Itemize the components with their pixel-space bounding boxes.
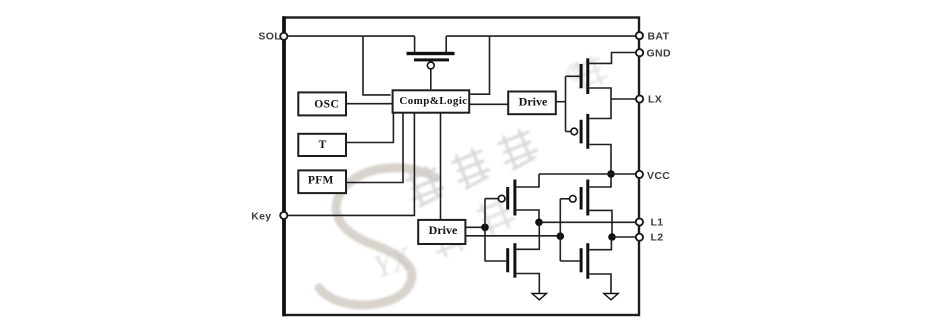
wire: M2 bubble link (566, 131, 571, 133)
pin circle SOL (280, 33, 287, 40)
watermark glyph hatch 1 (495, 126, 541, 172)
junction dot Drive2 upper (481, 224, 489, 232)
junction dot L1 (535, 219, 543, 227)
junction dot L2 (608, 233, 616, 241)
block PFM (298, 170, 346, 193)
pin circle GND (636, 49, 643, 56)
block OSC (298, 92, 346, 115)
transistor M5 gate bubble (498, 195, 505, 202)
transistor M2 gate bubble (571, 128, 578, 135)
wire: M4 source to ground (589, 274, 611, 294)
wire: Comp&Logic to Drive2 (440, 114, 442, 220)
transistor M2 gate bar (580, 120, 583, 144)
svg-text:Drive: Drive (519, 94, 548, 108)
block Drive2 (418, 220, 465, 244)
wire: BAT line (right segment) (446, 35, 639, 37)
block Drive1 (508, 92, 556, 115)
wire: M5 source to VCC (516, 174, 539, 187)
pin circle BAT (636, 32, 643, 39)
junction dot Drive2 lower (557, 232, 565, 240)
transistor M0 gate bubble (427, 62, 434, 69)
wire: VCC line (539, 173, 639, 175)
transistor M1 gate bar (580, 64, 583, 88)
wire: L1 line (539, 221, 639, 223)
junction dot VCC (607, 170, 615, 178)
pin circle L1 (636, 218, 643, 225)
svg-text:BAT: BAT (648, 30, 670, 42)
wire: M4 gate horizontal (560, 260, 579, 262)
pin circle LX (636, 95, 643, 102)
wire: M3-M4 gate vertical (559, 199, 561, 261)
pin circle Key (280, 212, 287, 219)
wire: BAT sense to Comp&Logic right (470, 36, 489, 94)
transistor M3 channel bar (586, 180, 589, 216)
wire: M3 bubble link (560, 198, 569, 200)
wire: M1 drain to GND pin (589, 53, 639, 64)
block T (298, 134, 346, 156)
wire: Drive2 output upper (465, 226, 485, 228)
wire: Key line to Comp&Logic (284, 114, 414, 216)
svg-text:Key: Key (251, 211, 271, 223)
pin circle VCC (636, 171, 643, 178)
wire: M3 drain to L2 (589, 210, 612, 237)
wire: LX tap (611, 98, 639, 100)
wire: M5 bubble link (485, 198, 498, 200)
svg-text:OSC: OSC (314, 98, 339, 110)
svg-text:T: T (319, 139, 327, 151)
wire: SOL line (left segment) (284, 35, 415, 37)
ground symbol left (532, 294, 546, 300)
transistor M5 gate bar (506, 187, 509, 210)
wire: M1-M2 gate vertical (565, 76, 567, 131)
transistor M0 channel bar (407, 52, 455, 55)
transistor M3 gate bubble (570, 196, 577, 203)
wire: Drive1 output (556, 101, 566, 103)
wire: M0 right terminal (445, 36, 447, 52)
svg-text:PFM: PFM (308, 175, 334, 187)
wire: M5-M6 gate vertical (484, 199, 486, 261)
wire: M1 gate horizontal (566, 75, 580, 77)
wire: M1 source / M2 drain vertical (589, 88, 611, 119)
outer box (284, 18, 639, 316)
svg-text:Comp&Logic: Comp&Logic (399, 95, 467, 107)
svg-text:VCC: VCC (647, 170, 670, 182)
block Comp&Logic (393, 90, 470, 112)
svg-text:L1: L1 (651, 216, 664, 228)
wire: M6 source to ground (516, 274, 539, 294)
transistor M1 channel bar (586, 58, 589, 94)
svg-text:R: R (572, 68, 580, 80)
transistor M6 channel bar (513, 243, 516, 278)
transistor M0 gate bar (414, 58, 449, 61)
wire: M4 drain up to L2 (589, 237, 611, 250)
watermark glyph hatch 4 (473, 194, 517, 238)
watermark big S (319, 168, 436, 305)
transistor M2 channel bar (586, 114, 589, 149)
wire: M0 left terminal (414, 36, 416, 52)
wire: M6 drain up to L1 (516, 222, 539, 249)
watermark glyph hatch 5 (426, 216, 470, 260)
wire: M5 drain to L1 (516, 210, 539, 222)
wire: SOL to Comp&Logic left (363, 36, 391, 95)
watermark glyph hatch 2 (448, 145, 493, 190)
transistor M3 gate bar (580, 187, 583, 210)
wire: Comp&Logic to Drive1 (469, 103, 508, 105)
svg-text:LX: LX (648, 94, 662, 106)
transistor M4 gate bar (580, 248, 583, 272)
watermark glyph hatch 6 (faint top) (568, 53, 609, 94)
watermark registered mark (568, 64, 584, 80)
watermark glyph hatch 3 (402, 163, 447, 208)
pin circle L2 (636, 234, 643, 241)
wire: M0 gate to Comp&Logic top (430, 69, 432, 89)
wire: M2 source down to VCC and M3 drain (589, 145, 611, 188)
svg-text:L2: L2 (651, 232, 664, 244)
wire: Drive2 output lower (465, 235, 560, 237)
wire: M6 gate horizontal (485, 260, 507, 262)
svg-text:GND: GND (647, 47, 671, 59)
svg-text:SOL: SOL (258, 31, 281, 43)
wire: PFM to Comp&Logic (346, 114, 403, 183)
wire: L2 line (612, 236, 639, 238)
transistor M6 gate bar (506, 248, 509, 272)
svg-text:Drive: Drive (429, 223, 458, 237)
wire: OSC to Comp&Logic (346, 103, 393, 105)
outer box thick left edge (282, 16, 286, 316)
ground symbol right (604, 294, 618, 300)
wire: T to Comp&Logic (346, 114, 393, 143)
transistor M4 channel bar (586, 243, 589, 279)
transistor M5 channel bar (513, 180, 516, 216)
